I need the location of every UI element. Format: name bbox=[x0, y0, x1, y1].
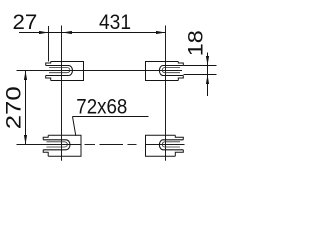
svg-text:431: 431 bbox=[99, 10, 131, 34]
svg-text:72x68: 72x68 bbox=[76, 95, 127, 119]
svg-text:270: 270 bbox=[1, 86, 25, 129]
svg-text:18: 18 bbox=[183, 30, 207, 56]
svg-text:27: 27 bbox=[13, 10, 38, 34]
